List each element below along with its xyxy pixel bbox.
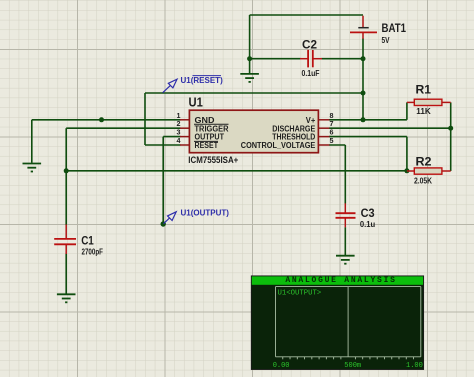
- svg-text:0.1u: 0.1u: [360, 220, 375, 229]
- node junction C2-left: [247, 56, 252, 61]
- wire THRESHOLD vertical: [406, 137, 408, 171]
- node junction on pin1 wire: [99, 117, 104, 122]
- wire RESET net vertical: [144, 93, 146, 145]
- wire RESET net horizontal: [145, 92, 363, 94]
- capacitor C1: [54, 225, 103, 257]
- wire TRIGGER-THRESHOLD long horizontal: [66, 170, 407, 172]
- svg-text:ICM7555ISA+: ICM7555ISA+: [188, 155, 238, 165]
- op-amp U1 ICM7555 body: [188, 95, 318, 165]
- ground top-left: [23, 164, 42, 172]
- analysis tick marks: [283, 357, 414, 360]
- wire pin3 OUTPUT vertical to probe: [162, 137, 164, 224]
- svg-text:BAT1: BAT1: [382, 23, 407, 35]
- U1 pin 6 THRESHOLD: [272, 128, 333, 142]
- wire C2 junction to ground: [249, 59, 251, 73]
- wire C3 bottom to ground: [344, 227, 346, 255]
- U1 pin 4 RESET: [177, 136, 219, 150]
- U1 pin 8 V+: [306, 111, 334, 125]
- wire pin8 V+ horizontal: [329, 119, 407, 121]
- resistor R2: [407, 156, 451, 185]
- wire C1 top vertical: [65, 171, 67, 225]
- node junction TRIGGER-THRESHOLD: [64, 168, 69, 173]
- svg-text:0.00: 0.00: [273, 362, 290, 370]
- svg-text:ANALOGUE ANALYSIS: ANALOGUE ANALYSIS: [285, 276, 396, 285]
- svg-text:U1: U1: [189, 95, 203, 109]
- ground under C3: [336, 256, 355, 264]
- svg-text:U1(OUTPUT): U1(OUTPUT): [181, 209, 230, 218]
- wire pin2 TRIGGER horizontal: [66, 127, 180, 129]
- svg-text:CONTROL_VOLTAGE: CONTROL_VOLTAGE: [241, 140, 316, 150]
- wire pin3 OUTPUT horizontal: [163, 136, 180, 138]
- svg-text:500m: 500m: [344, 362, 361, 370]
- wire pin1 GND vertical: [31, 120, 33, 163]
- node junction DISCHARGE-R1R2: [448, 126, 453, 131]
- U1 pin 3 OUTPUT: [177, 128, 225, 142]
- wire R1 left vertical: [406, 102, 408, 119]
- wire pin7 DISCHARGE horizontal: [329, 127, 451, 129]
- node junction battery-RESET: [361, 91, 366, 96]
- wire pin5 CONTROL_VOLTAGE horizontal: [329, 144, 345, 146]
- wire C1 bottom to ground: [65, 254, 67, 294]
- wire RESET to pin4: [145, 144, 181, 146]
- svg-text:U1(RESET): U1(RESET): [181, 76, 224, 85]
- node junction battery-pin8: [361, 117, 366, 122]
- svg-text:5: 5: [330, 136, 334, 145]
- svg-text:R2: R2: [416, 156, 432, 168]
- svg-text:C1: C1: [81, 233, 94, 247]
- U1 pin 7 DISCHARGE: [272, 119, 333, 133]
- node junction THRESHOLD-R2: [404, 168, 409, 173]
- wire C2 right to battery vertical: [322, 58, 364, 60]
- svg-text:2700pF: 2700pF: [82, 248, 104, 257]
- battery BAT1: [350, 16, 406, 45]
- wire pin1 GND horizontal: [32, 119, 181, 121]
- analogue analysis window: [251, 276, 423, 370]
- wire pin2 TRIGGER vertical: [65, 128, 67, 171]
- wire top GND net vertical: [249, 15, 251, 59]
- svg-text:5V: 5V: [382, 36, 391, 45]
- analysis plot frame: [276, 287, 421, 357]
- svg-text:11K: 11K: [416, 107, 431, 116]
- ground under C2: [240, 74, 259, 82]
- probe U1(OUTPUT): [161, 209, 230, 227]
- ground under C1: [57, 294, 76, 302]
- svg-text:R1: R1: [416, 85, 432, 97]
- resistor R1: [407, 85, 451, 116]
- capacitor C2: [300, 39, 322, 78]
- wire top GND net horizontal: [250, 14, 363, 16]
- probe U1(RESET): [163, 76, 223, 93]
- U1 pin 1 GND: [177, 111, 215, 125]
- svg-text:2.05K: 2.05K: [414, 176, 432, 185]
- svg-text:C3: C3: [361, 208, 375, 220]
- svg-text:1.00: 1.00: [406, 362, 423, 370]
- U1 pin 5 CONTROL_VOLTAGE: [241, 136, 334, 150]
- wire battery positive vertical: [362, 39, 364, 120]
- wire C2 left: [250, 58, 301, 60]
- svg-text:4: 4: [177, 136, 181, 145]
- wire R1R2 right vertical: [450, 102, 452, 171]
- capacitor C3: [336, 203, 376, 229]
- wire pin6 THRESHOLD horizontal: [329, 136, 407, 138]
- svg-text:U1<OUTPUT>: U1<OUTPUT>: [278, 290, 322, 298]
- wire pin5 vertical to C3: [344, 145, 346, 204]
- svg-text:C2: C2: [302, 39, 317, 51]
- U1 pin 2 TRIGGER: [177, 119, 230, 133]
- node junction battery-C2: [361, 56, 366, 61]
- svg-text:0.1uF: 0.1uF: [302, 69, 320, 78]
